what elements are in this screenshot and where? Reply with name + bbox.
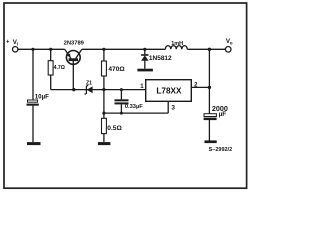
- svg-text:4.7Ω: 4.7Ω: [54, 65, 65, 71]
- svg-text:o: o: [230, 40, 233, 45]
- svg-text:0.5Ω: 0.5Ω: [107, 125, 122, 132]
- svg-text:470Ω: 470Ω: [108, 66, 125, 73]
- svg-text:µF: µF: [219, 111, 227, 118]
- svg-text:2N3789: 2N3789: [64, 40, 85, 46]
- svg-text:1mH: 1mH: [171, 41, 183, 47]
- svg-text:i: i: [17, 41, 18, 46]
- svg-text:10µF: 10µF: [35, 93, 49, 100]
- svg-text:0.33µF: 0.33µF: [125, 104, 143, 110]
- svg-text:Z1: Z1: [86, 81, 92, 87]
- svg-text:+: +: [6, 40, 10, 46]
- svg-text:1N5812: 1N5812: [149, 55, 172, 62]
- svg-text:S–2992/2: S–2992/2: [209, 147, 233, 153]
- svg-text:L78XX: L78XX: [156, 86, 182, 95]
- svg-text:3: 3: [171, 105, 175, 112]
